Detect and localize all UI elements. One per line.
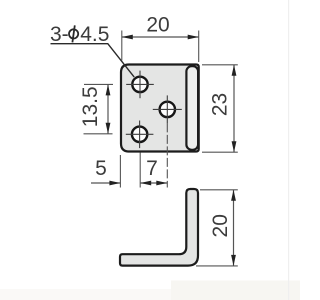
hole H1 [132,77,147,92]
bend flange strip [186,66,198,150]
extension line hole column [139,153,141,188]
extension line middle hole (dashed centerline) [166,123,168,187]
dimension 20 (top width) [122,13,199,62]
hole H2 [132,127,147,142]
dimension 23 (right height) [202,65,238,152]
hole H2 centerlines [126,121,154,149]
svg-text:13.5: 13.5 [79,86,102,127]
plate outline (top view) [121,65,199,152]
svg-text:4.5: 4.5 [80,23,109,46]
hole H3 [160,102,175,117]
L-bracket outline (side view) [120,189,198,266]
svg-text:23: 23 [209,93,232,116]
svg-text:3-: 3- [50,23,69,46]
bottom page tint [0,289,300,300]
dimension 20 (side view height) [196,190,238,266]
label 3-phi4.5 [50,23,109,46]
svg-text:20: 20 [209,214,232,237]
svg-text:20: 20 [146,13,169,36]
svg-text:5: 5 [95,157,107,180]
hole H1 centerlines [126,71,154,99]
leader line for hole callout [51,44,135,77]
dimension 13.5 (left hole spacing) [79,84,113,133]
bottom-right page tint [171,281,300,300]
extension line plate left edge [119,155,121,188]
right edge rule [288,0,289,300]
hole H3 centerlines [153,95,182,123]
svg-text:7: 7 [146,157,158,180]
dimension 5 [91,157,120,185]
dimension 7 [140,157,167,185]
